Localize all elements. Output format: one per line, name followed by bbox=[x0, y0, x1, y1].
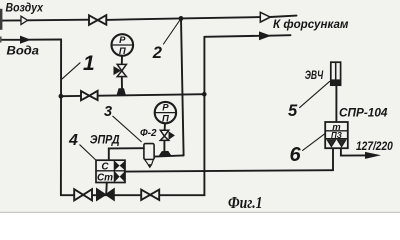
check valve at nozzle outlet (open triangle) bbox=[260, 12, 270, 22]
node tee blob under P1 bbox=[117, 88, 126, 95]
wire SPR drop bbox=[332, 148, 334, 170]
EPRD regulator box bbox=[96, 160, 125, 182]
svg-text:Ф-2: Ф-2 bbox=[140, 128, 157, 139]
wire nozzle feed end bbox=[269, 34, 291, 37]
wire branch horizontal to filter bbox=[155, 155, 184, 156]
gauge P2 (manometer Р/П) bbox=[155, 102, 176, 123]
leader line 4 bbox=[80, 145, 96, 160]
wire EVCh to SPR bbox=[335, 85, 337, 122]
svg-text:127/220: 127/220 bbox=[356, 139, 393, 153]
scan artifact bottom edge bbox=[0, 211, 400, 213]
leader line 3 bbox=[113, 116, 141, 141]
svg-text:Вода: Вода bbox=[7, 43, 40, 57]
svg-text:3: 3 bbox=[104, 104, 112, 120]
svg-text:П: П bbox=[162, 113, 169, 124]
svg-text:К форсункам: К форсункам bbox=[273, 17, 349, 31]
node junction mid line / right vertical bbox=[202, 92, 207, 97]
svg-text:ЭВЧ: ЭВЧ bbox=[305, 68, 324, 82]
wire branch vertical from air junction bbox=[181, 18, 184, 155]
svg-text:ПЗ: ПЗ bbox=[331, 131, 342, 140]
wire air line end bbox=[270, 16, 296, 17]
svg-text:С: С bbox=[101, 162, 109, 173]
arrow water inlet (filled) bbox=[20, 36, 31, 44]
valve (bowtie) bottom right bbox=[141, 190, 159, 200]
svg-text:1: 1 bbox=[83, 52, 95, 75]
svg-text:СПР-104: СПР-104 bbox=[339, 106, 388, 120]
arrow nozzle feed (filled) bbox=[259, 31, 271, 40]
leader line 6 bbox=[303, 133, 326, 150]
filter F-2 body bbox=[144, 144, 154, 160]
wire left vertical water drop bbox=[60, 40, 62, 196]
svg-text:6: 6 bbox=[290, 144, 302, 166]
svg-text:Воздух: Воздух bbox=[6, 1, 45, 15]
valve (bowtie) on air line bbox=[89, 15, 106, 25]
wire air line to valve bbox=[28, 19, 89, 22]
wire EPRD output line to SPR bbox=[125, 170, 333, 171]
three-way gauge valve under P2 bbox=[160, 130, 168, 140]
valve (bowtie) on mid line bbox=[81, 91, 98, 101]
svg-text:Ст: Ст bbox=[97, 173, 113, 184]
wire filter to EPRD bbox=[109, 148, 144, 160]
svg-text:Р: Р bbox=[162, 102, 169, 113]
wire air line to junction bbox=[106, 18, 181, 20]
check valve on air inlet (open triangle) bbox=[21, 16, 28, 24]
svg-text:2: 2 bbox=[152, 44, 162, 62]
leader line 2 bbox=[164, 20, 181, 45]
wire valve to gauge P2 bbox=[164, 123, 166, 130]
svg-text:Р: Р bbox=[119, 35, 126, 46]
wire water line to corner bbox=[29, 39, 61, 41]
EPRD port symbols (filled bowties) bbox=[115, 161, 125, 170]
node junction on water vertical bbox=[59, 94, 64, 99]
wire EPRD bottom stem bbox=[105, 183, 108, 195]
svg-text:ЭПРД: ЭПРД bbox=[90, 133, 120, 147]
filter F-2 funnel bbox=[145, 160, 154, 165]
wire nozzle feed line bbox=[204, 36, 259, 37]
SPR-104 unit box bbox=[325, 122, 348, 148]
three-way gauge valve under P1 bbox=[117, 64, 126, 76]
SPR coil symbols (triangles) bbox=[327, 140, 346, 147]
filter F-2 drain tick bbox=[148, 165, 153, 169]
svg-text:4: 4 bbox=[68, 132, 78, 149]
EVCh igniter component bbox=[331, 62, 341, 85]
svg-text:Фиг.1: Фиг.1 bbox=[228, 193, 263, 212]
leader line 1 bbox=[62, 63, 80, 79]
gauge P1 (manometer Р/П) bbox=[112, 34, 134, 56]
wire valve to line bbox=[121, 77, 123, 89]
leader line 5 bbox=[300, 81, 330, 107]
node tee blob under P2 bbox=[159, 151, 172, 156]
scan artifact left edge bbox=[0, 9, 2, 30]
svg-text:5: 5 bbox=[288, 102, 298, 120]
wire water line bbox=[0, 39, 20, 41]
valve (filled bowtie) under EPRD bbox=[97, 189, 115, 201]
arrow power output (filled) bbox=[365, 152, 381, 159]
wire SPR power output bbox=[341, 148, 365, 155]
valve (bowtie) bottom left bbox=[74, 189, 92, 200]
wire blob to valve bbox=[163, 140, 165, 151]
wire gauge P1 stem bbox=[121, 56, 123, 65]
wire right vertical line bbox=[203, 37, 205, 195]
wire bottom line bbox=[61, 194, 205, 196]
wire air line to outlet valve bbox=[181, 17, 260, 18]
wire air line segment left bbox=[0, 19, 21, 21]
wire mid horizontal line bbox=[61, 94, 204, 96]
node junction air/branch bbox=[179, 16, 184, 21]
